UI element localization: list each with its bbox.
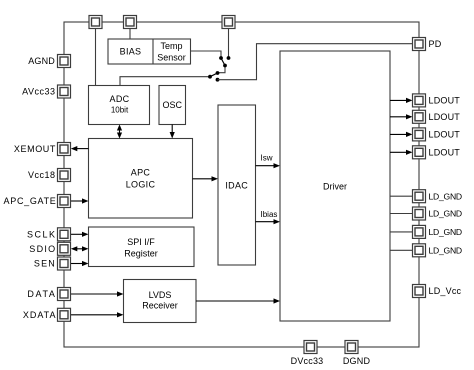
switch contact dot C <box>223 64 227 68</box>
wire top pad3 to switch contact <box>228 28 230 58</box>
svg-text:Ibias: Ibias <box>261 210 278 219</box>
wire APC to XEMOUT arrow <box>71 146 89 151</box>
svg-text:LVDS: LVDS <box>149 290 172 300</box>
label LVDS Receiver <box>142 290 178 311</box>
pad top P1 <box>89 16 102 29</box>
svg-text:DVcc33: DVcc33 <box>291 356 324 366</box>
wire Driver to LD_GND4 <box>390 249 413 251</box>
svg-text:XDATA: XDATA <box>23 310 57 320</box>
svg-text:LDOUT: LDOUT <box>429 130 461 140</box>
wire Driver to LD_GND2 <box>390 213 413 215</box>
svg-text:Vcc18: Vcc18 <box>28 170 56 180</box>
pad SEN <box>58 257 71 270</box>
block BIAS/TempSensor outline <box>108 39 191 64</box>
wire top pad1 to ADC <box>95 28 97 86</box>
svg-text:DATA: DATA <box>27 289 56 299</box>
switch contact dot B <box>227 56 231 60</box>
svg-text:Driver: Driver <box>323 182 347 192</box>
svg-text:SPI I/F: SPI I/F <box>127 237 155 247</box>
pad LDOUT1 <box>413 94 426 107</box>
label ADC 10bit <box>110 94 130 115</box>
pad AGND <box>58 55 71 68</box>
svg-text:DGND: DGND <box>343 356 371 366</box>
svg-text:LD_GND: LD_GND <box>429 191 462 201</box>
svg-text:APC_GATE: APC_GATE <box>4 196 57 206</box>
wire DATA to LVDS arrow <box>71 291 124 296</box>
wire APC to IDAC arrow <box>193 176 219 181</box>
switch contact dot A <box>219 56 223 60</box>
wire SEN to SPI arrow <box>71 261 89 266</box>
wire IDAC to Driver Ibias arrow <box>256 219 281 224</box>
svg-text:Sensor: Sensor <box>157 53 186 63</box>
block APC LOGIC <box>89 139 193 219</box>
block Driver <box>280 51 390 321</box>
svg-text:AGND: AGND <box>28 56 55 66</box>
pad Vcc18 <box>58 169 71 182</box>
label APC LOGIC <box>126 167 156 189</box>
svg-text:Isw: Isw <box>261 153 273 162</box>
pad XEMOUT <box>58 143 71 156</box>
pad LDOUT4 <box>413 146 426 159</box>
pad LD_GND1 <box>413 190 426 203</box>
wire top pad2 to BIAS <box>129 28 131 39</box>
svg-text:LD_GND: LD_GND <box>429 209 462 219</box>
label SPI I/F Register <box>124 237 158 259</box>
pad SCLK <box>58 228 71 241</box>
label Temp Sensor <box>157 41 186 63</box>
pad DGND <box>345 341 358 354</box>
svg-text:Register: Register <box>124 249 158 259</box>
block IDAC <box>218 105 256 265</box>
svg-text:LOGIC: LOGIC <box>126 180 156 190</box>
wire Driver to LDOUT1 arrow <box>390 98 413 103</box>
wire SDIO-SPI double arrow <box>71 246 89 251</box>
pad LDOUT2 <box>413 110 426 123</box>
svg-text:AVcc33: AVcc33 <box>22 87 55 97</box>
svg-text:XEMOUT: XEMOUT <box>14 144 56 154</box>
wire LVDS to Driver arrow <box>196 298 280 303</box>
wire XDATA to LVDS arrow <box>71 312 124 317</box>
switch contact dot E <box>208 75 212 79</box>
block LVDS Receiver <box>124 280 197 323</box>
wire APC_GATE to APC arrow <box>71 198 89 203</box>
svg-text:Temp: Temp <box>160 41 182 51</box>
pad APC_GATE <box>58 195 71 208</box>
wire OSC to APC arrow <box>170 125 175 139</box>
svg-text:Receiver: Receiver <box>142 301 178 311</box>
svg-text:PD: PD <box>429 39 442 49</box>
switch contact dot D <box>216 71 220 75</box>
pad DATA <box>58 288 71 301</box>
svg-text:LDOUT: LDOUT <box>429 148 461 158</box>
svg-text:SDIO: SDIO <box>29 244 56 254</box>
block ADC 10bit <box>89 86 150 125</box>
svg-text:LD_Vcc: LD_Vcc <box>429 286 462 296</box>
wire ADC-APC double arrow <box>117 125 122 139</box>
wire Driver to LDOUT3 arrow <box>390 132 413 137</box>
switch arm upper <box>221 58 225 66</box>
pad top P2 <box>124 16 137 29</box>
svg-text:10bit: 10bit <box>111 106 129 115</box>
svg-text:OSC: OSC <box>162 100 182 110</box>
pad top P3 <box>222 16 235 29</box>
pad LD_GND2 <box>413 207 426 220</box>
pad LD_GND3 <box>413 225 426 238</box>
pad LD_GND4 <box>413 244 426 257</box>
switch output dot F <box>216 78 220 82</box>
wire ADC top to switch contact <box>120 77 210 86</box>
wire Driver to LDOUT2 arrow <box>390 114 413 119</box>
svg-text:LD_GND: LD_GND <box>429 246 462 256</box>
svg-text:LDOUT: LDOUT <box>429 112 461 122</box>
pad SDIO <box>58 242 71 255</box>
wire IDAC to Driver Isw arrow <box>256 163 281 168</box>
block SPI I/F Register <box>89 227 195 267</box>
svg-text:LDOUT: LDOUT <box>429 96 461 106</box>
switch arm lower <box>210 73 218 77</box>
pad XDATA <box>58 308 71 321</box>
svg-text:LD_GND: LD_GND <box>429 227 462 237</box>
chip boundary <box>64 22 419 347</box>
pad DVcc33 <box>304 341 317 354</box>
wire switch to PD pad <box>218 44 413 80</box>
wire Driver to LDOUT4 arrow <box>390 150 413 155</box>
svg-text:ADC: ADC <box>110 94 130 104</box>
pad LD_Vcc <box>413 285 426 298</box>
pad AVcc33 <box>58 85 71 98</box>
svg-text:BIAS: BIAS <box>120 47 142 57</box>
wire Driver to LD_GND3 <box>390 231 413 233</box>
svg-text:SCLK: SCLK <box>27 230 57 240</box>
wire SCLK to SPI arrow <box>71 232 89 237</box>
pad PD <box>413 38 426 51</box>
pad LDOUT3 <box>413 128 426 141</box>
block OSC <box>159 86 186 125</box>
wire Driver to LD_GND1 <box>390 195 413 197</box>
wire Temp Sensor to switch contact <box>191 51 222 58</box>
svg-text:APC: APC <box>131 167 151 177</box>
svg-text:IDAC: IDAC <box>225 180 248 190</box>
svg-text:SEN: SEN <box>34 259 56 269</box>
switch arm stub <box>218 66 226 73</box>
